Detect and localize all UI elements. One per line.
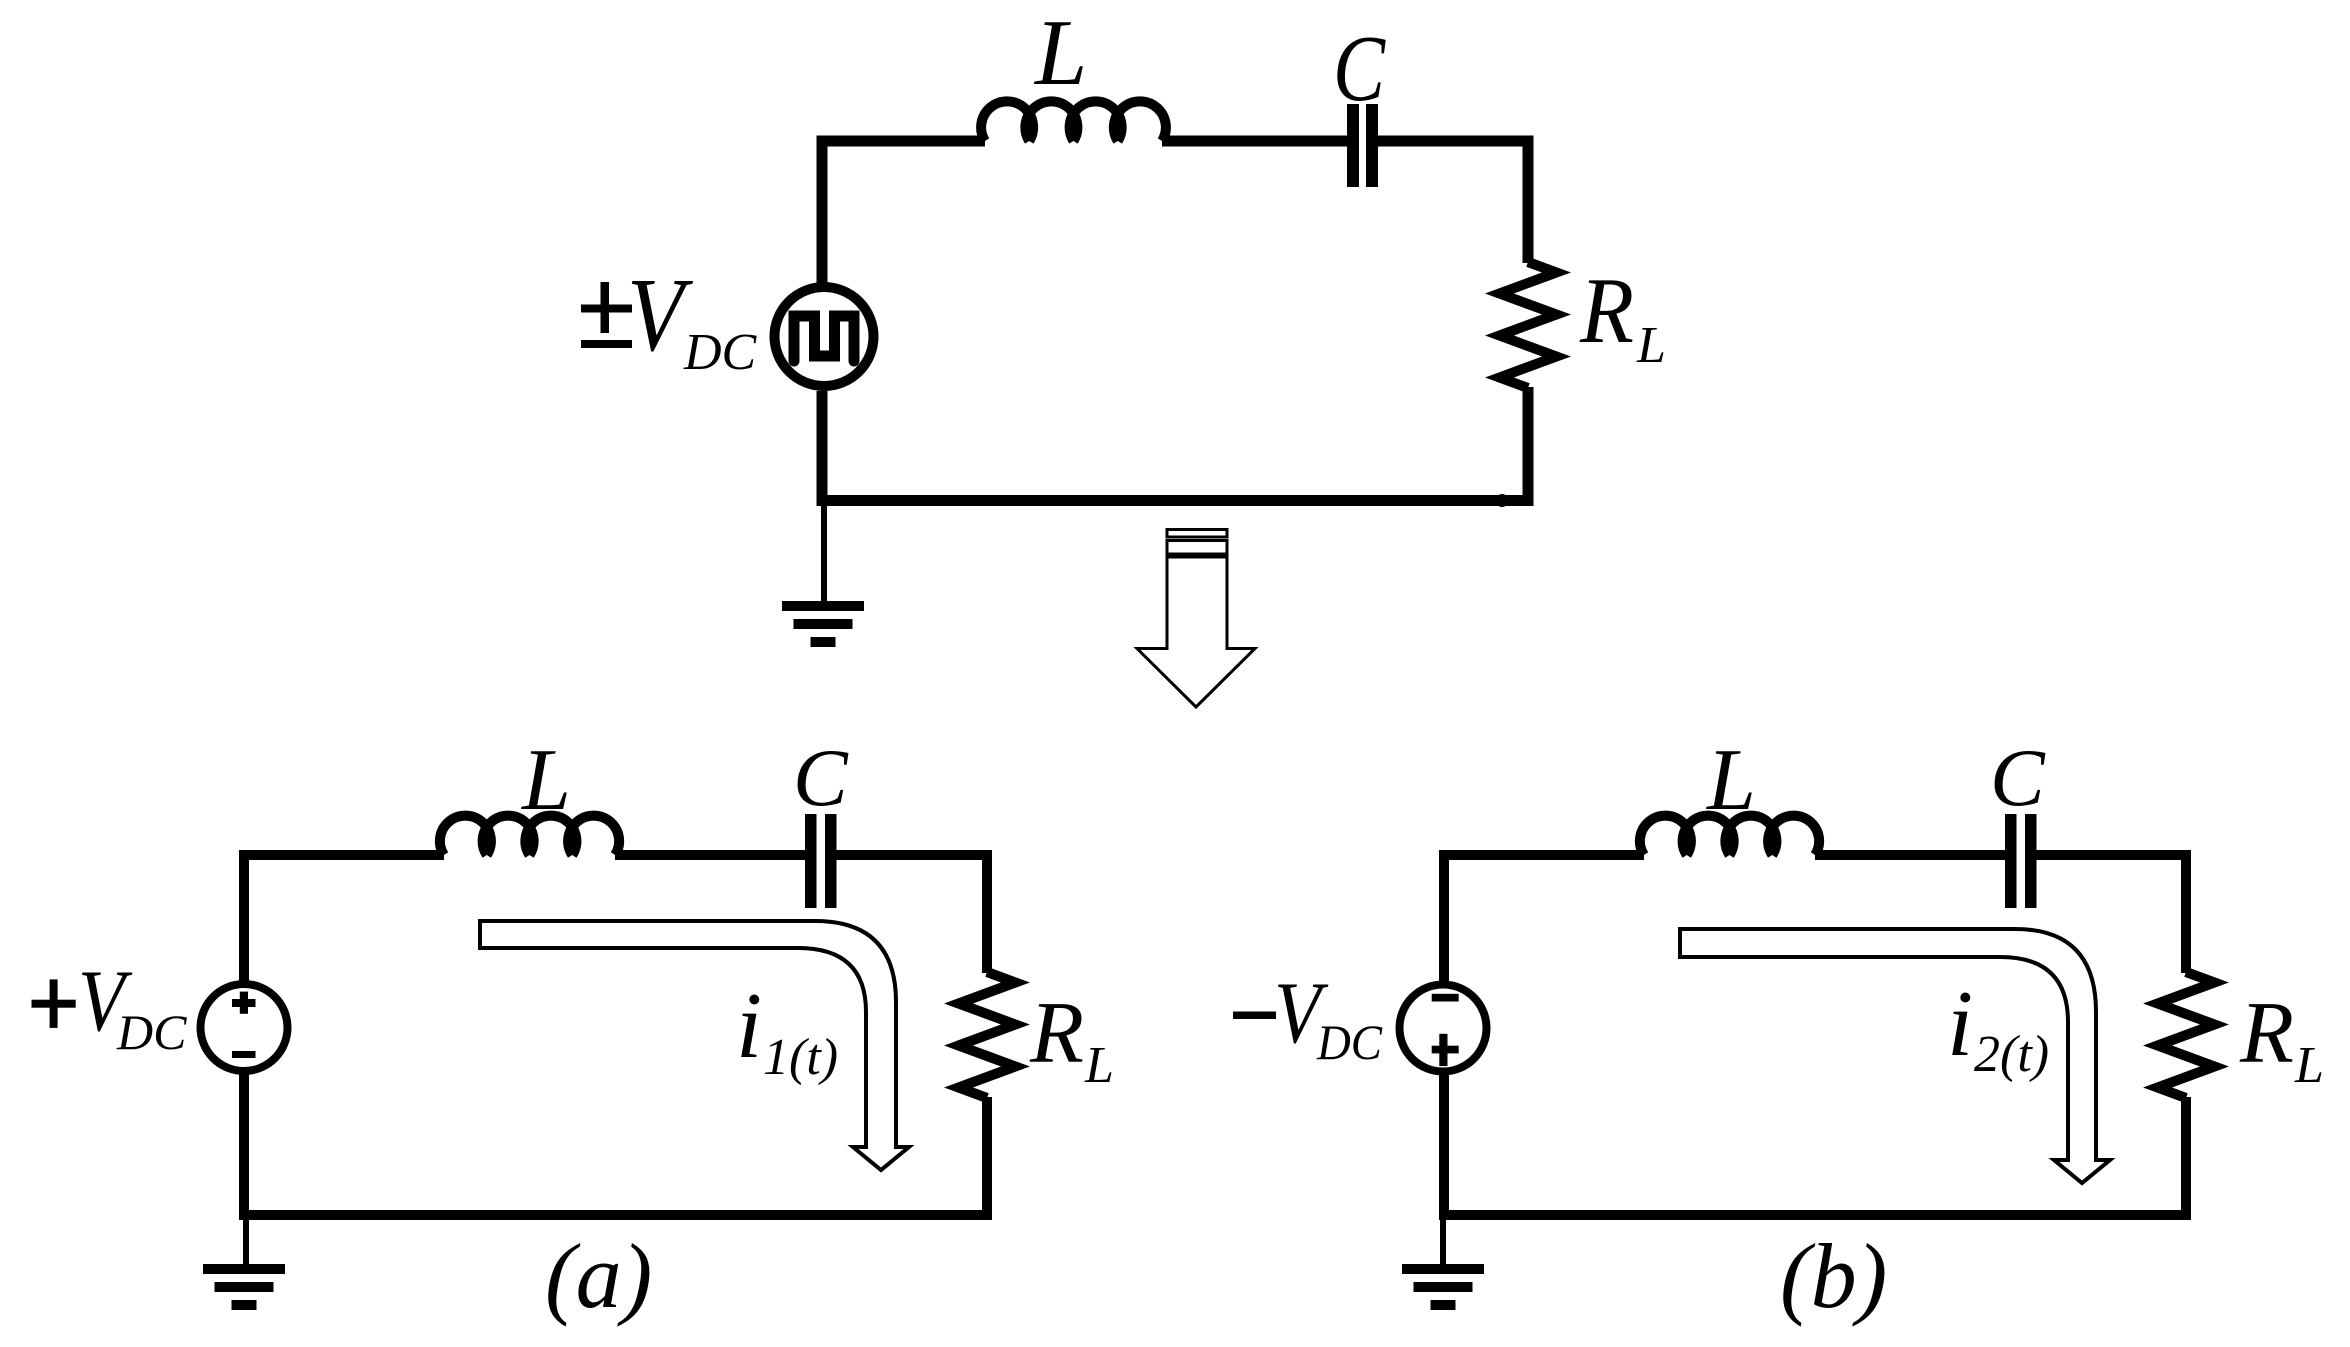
svg-text:R: R: [2239, 985, 2294, 1082]
svg-text:(b): (b): [1780, 1225, 1887, 1327]
svg-text:(a): (a): [545, 1225, 652, 1327]
svg-text:L: L: [1033, 1, 1087, 105]
svg-text:L: L: [1636, 317, 1666, 374]
svg-text:R: R: [1029, 985, 1084, 1082]
svg-text:DC: DC: [116, 1004, 187, 1060]
svg-text:R: R: [1579, 259, 1634, 363]
svg-text:2(t): 2(t): [1974, 1026, 2049, 1083]
svg-text:C: C: [793, 732, 849, 823]
svg-text:i: i: [736, 974, 762, 1078]
svg-text:DC: DC: [683, 324, 758, 381]
svg-text:L: L: [2294, 1037, 2324, 1094]
svg-text:1(t): 1(t): [763, 1029, 838, 1086]
svg-text:C: C: [1990, 732, 2046, 823]
svg-text:C: C: [1333, 17, 1386, 121]
svg-text:i: i: [1947, 972, 1973, 1076]
svg-text:L: L: [1084, 1037, 1114, 1094]
svg-text:DC: DC: [1316, 1014, 1383, 1070]
svg-text:L: L: [520, 732, 571, 829]
svg-text:L: L: [1705, 732, 1756, 829]
